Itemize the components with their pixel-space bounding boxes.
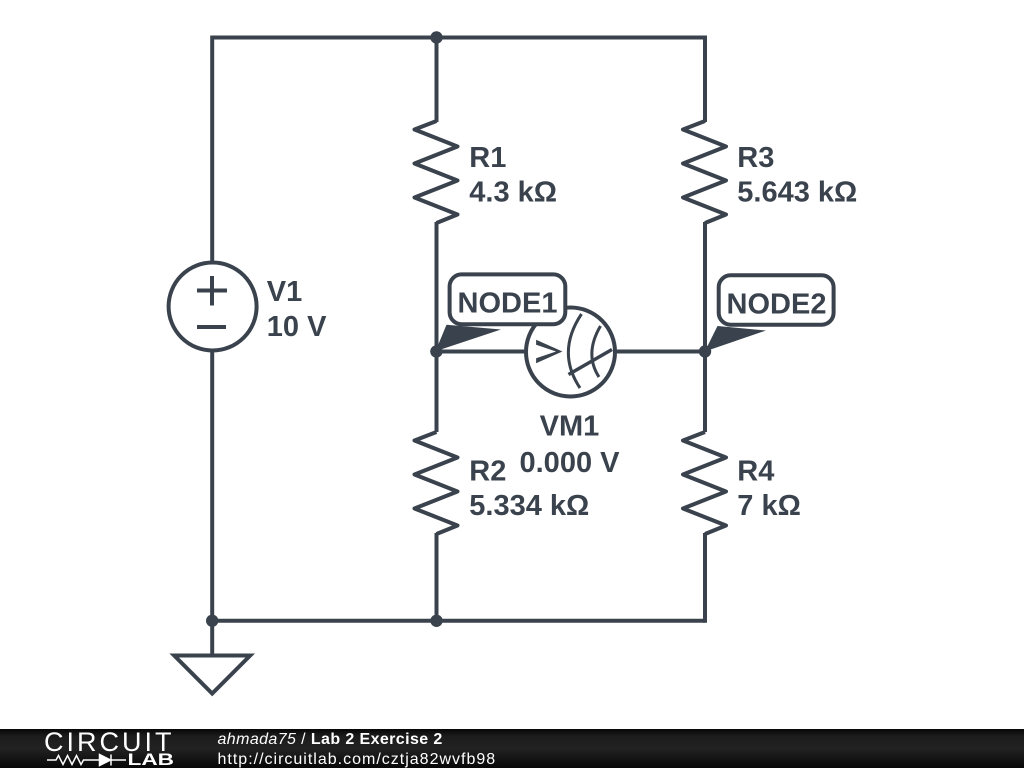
svg-text:R4: R4 xyxy=(737,456,774,488)
VM1 body circle xyxy=(526,308,615,397)
wire bottom horizontal xyxy=(212,619,705,623)
svg-text:0.000 V: 0.000 V xyxy=(520,447,621,479)
wire right branch between R3 and NODE2 xyxy=(703,222,707,352)
resistor R2 xyxy=(415,432,458,534)
footer bar xyxy=(0,727,1024,768)
node NODE1 flag xyxy=(436,274,566,351)
V1 plus sign xyxy=(197,289,227,293)
svg-text:4.3 kΩ: 4.3 kΩ xyxy=(469,177,557,209)
wire right branch upper (top to R3) xyxy=(703,36,707,123)
svg-text:LAB: LAB xyxy=(128,750,175,768)
logo resistor-diode drawing xyxy=(47,755,126,766)
VM1 probe arrow xyxy=(536,340,562,363)
wire middle branch NODE1 to R2 xyxy=(435,351,439,432)
resistor R4 xyxy=(683,432,726,534)
svg-text:NODE2: NODE2 xyxy=(727,289,827,321)
svg-text:ahmada75 / Lab 2 Exercise 2: ahmada75 / Lab 2 Exercise 2 xyxy=(218,731,443,748)
ground xyxy=(210,621,214,656)
svg-text:R1: R1 xyxy=(469,142,506,174)
wire middle horizontal (NODE1 to NODE2 through voltmeter) xyxy=(437,350,706,354)
junction bottom middle xyxy=(430,615,442,627)
VM1 meter face right arc xyxy=(592,326,601,377)
junction top xyxy=(430,31,442,43)
voltage source V1 circle xyxy=(169,263,257,351)
VM1 meter face left arc xyxy=(568,314,581,388)
VM1 meter needle xyxy=(569,350,613,375)
svg-text:http://circuitlab.com/cztja82w: http://circuitlab.com/cztja82wvfb98 xyxy=(218,751,497,768)
junction bottom left xyxy=(206,615,218,627)
svg-text:VM1: VM1 xyxy=(540,411,600,443)
wire right branch R4 to bottom xyxy=(703,533,707,623)
wire left vertical upper (to V1) xyxy=(210,36,214,263)
resistor R3 xyxy=(683,121,726,223)
wire middle branch between R1 and node NODE1 xyxy=(435,222,439,352)
V1 minus sign xyxy=(197,325,226,329)
wire middle branch upper (top to R1) xyxy=(435,38,439,123)
node NODE2 flag xyxy=(705,275,834,351)
svg-text:5.643 kΩ: 5.643 kΩ xyxy=(737,177,857,209)
node NODE1 junction xyxy=(430,345,442,357)
svg-text:7 kΩ: 7 kΩ xyxy=(737,490,801,522)
svg-text:NODE1: NODE1 xyxy=(458,288,558,320)
svg-text:R3: R3 xyxy=(737,142,774,174)
svg-text:R2: R2 xyxy=(469,456,506,488)
voltmeter VM1 xyxy=(526,308,615,397)
wire top horizontal xyxy=(212,36,705,40)
svg-text:10 V: 10 V xyxy=(267,311,327,343)
resistor R1 xyxy=(415,121,458,223)
wire right branch NODE2 to R4 xyxy=(703,351,707,432)
svg-text:5.334 kΩ: 5.334 kΩ xyxy=(469,490,589,522)
node NODE2 junction xyxy=(699,345,711,357)
wire left vertical lower (V1 to bottom) xyxy=(210,351,214,621)
svg-text:V1: V1 xyxy=(267,276,302,308)
wire middle branch R2 to bottom xyxy=(435,533,439,621)
